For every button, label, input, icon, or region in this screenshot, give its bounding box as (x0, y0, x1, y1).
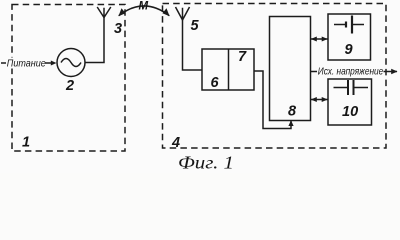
dashed enclosure 4 (receiver unit) (163, 4, 387, 149)
svg-text:7: 7 (238, 49, 247, 65)
svg-text:8: 8 (288, 104, 297, 120)
svg-text:Фиг. 1: Фиг. 1 (178, 153, 234, 173)
svg-text:9: 9 (345, 42, 353, 58)
power input label Питание (5, 58, 46, 69)
antenna 5 (176, 7, 190, 20)
generator G (circle 2) (57, 49, 85, 77)
svg-text:Исх. напряжение: Исх. напряжение (318, 66, 384, 78)
svg-text:4: 4 (171, 135, 180, 151)
double arrow between 8 and 9 (311, 38, 328, 40)
svg-text:10: 10 (342, 104, 358, 120)
output line Исх. напряжение with arrowhead (311, 71, 398, 73)
svg-text:M: M (139, 1, 149, 13)
battery symbol in block 9 (334, 24, 364, 26)
svg-text:Питание: Питание (7, 58, 46, 70)
svg-text:2: 2 (65, 78, 74, 94)
sine wave inside generator 2 (61, 59, 81, 67)
svg-text:1: 1 (22, 135, 30, 151)
mutual coupling arc M with arrowheads (119, 6, 170, 16)
block 10 (capacitor storage) (328, 79, 372, 125)
wire generator 2 to antenna 3 (85, 17, 104, 63)
svg-text:6: 6 (211, 75, 220, 91)
wire antenna 5 to block 6 (183, 20, 203, 70)
divider of block 6/7 (228, 49, 230, 90)
power input lead dash (1, 62, 6, 64)
double arrow between 8 and 10 (311, 99, 328, 101)
block 6/7 (detector) (202, 49, 254, 90)
dashed enclosure 1 (transmitter unit) (12, 5, 125, 152)
block 8 (converter) (270, 17, 311, 121)
wire block 7 to bottom of block 8 with arrowhead (254, 71, 291, 129)
svg-text:3: 3 (114, 21, 122, 37)
svg-text:5: 5 (191, 18, 200, 34)
block 9 (battery storage) (328, 14, 371, 60)
capacitor symbol in block 10 (334, 87, 369, 89)
wire Питание to generator with arrowhead (45, 62, 51, 64)
antenna 3 (97, 7, 111, 18)
